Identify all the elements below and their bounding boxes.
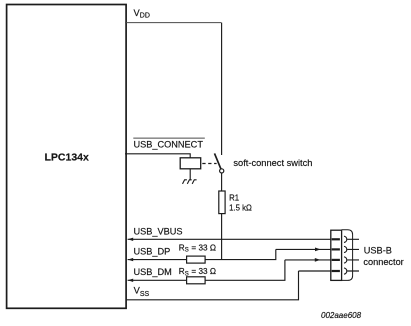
svg-text:soft-connect switch: soft-connect switch [233,158,312,168]
svg-text:S: S [185,248,189,254]
svg-text:= 33 Ω: = 33 Ω [191,243,216,252]
svg-text:R1: R1 [229,193,239,202]
svg-text:USB-B: USB-B [364,246,392,256]
svg-text:LPC134x: LPC134x [45,152,90,164]
svg-text:SS: SS [140,291,150,298]
svg-text:DD: DD [140,12,150,19]
svg-text:connector: connector [363,257,403,267]
svg-text:USB_CONNECT: USB_CONNECT [134,139,204,149]
svg-text:S: S [185,271,189,277]
svg-text:USB_DP: USB_DP [134,247,171,257]
svg-text:USB_VBUS: USB_VBUS [134,227,183,237]
svg-text:= 33 Ω: = 33 Ω [191,267,216,276]
svg-text:002aae608: 002aae608 [321,311,362,320]
svg-text:1.5 kΩ: 1.5 kΩ [229,204,252,213]
svg-text:USB_DM: USB_DM [134,267,172,277]
